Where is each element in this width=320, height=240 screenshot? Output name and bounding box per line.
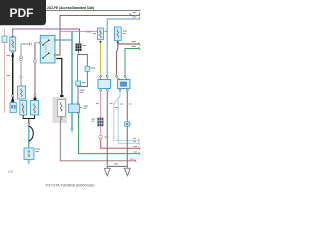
- connector pair on gray wire: [19, 56, 22, 58]
- connector at gray wire end: [29, 42, 31, 45]
- relay box: [39, 35, 56, 63]
- connector box on purple left leg: [76, 81, 81, 86]
- wire yellow-green: [100, 43, 102, 75]
- noise filter box: [69, 103, 83, 114]
- diamond marker on black wire: [11, 54, 14, 59]
- connector box on red wire top: [2, 36, 7, 43]
- pin on light blue wire: [106, 75, 108, 77]
- wire green right: [125, 49, 139, 75]
- gray band: [53, 97, 68, 123]
- wire purple to noise filter: [77, 87, 79, 104]
- connector box right: [116, 77, 130, 88]
- wire light blue top horizontal: [107, 17, 139, 76]
- wire pink horizontal: [60, 30, 98, 32]
- wire purple main horizontal: [13, 29, 80, 44]
- pin on black wire: [12, 95, 14, 97]
- pin on green wire: [124, 75, 126, 77]
- shield ground arrow: [27, 160, 31, 165]
- tick on brown wire: [130, 13, 132, 16]
- tick on brown wire right: [139, 42, 141, 45]
- fuse row box B: [10, 103, 16, 113]
- fuse row box C: [20, 101, 27, 116]
- pin below FL right 1: [100, 41, 102, 43]
- shield symbol: [29, 126, 34, 141]
- pins below connector boxes: [100, 89, 102, 91]
- fusible link white box: [57, 100, 65, 117]
- connector nub B: [11, 100, 14, 103]
- svg-text:TOYOTA TUNDRA (EM00S0U): TOYOTA TUNDRA (EM00S0U): [45, 184, 94, 188]
- wire brown right: [116, 43, 117, 75]
- wire black drop to shield: [28, 119, 30, 124]
- ground arrow left: [104, 168, 110, 176]
- wire teal vertical: [71, 31, 73, 128]
- wire black join below fuses: [23, 115, 34, 119]
- wire light blue second: [118, 96, 139, 143]
- header rule: [8, 10, 141, 12]
- wire maroon down to fuse D: [34, 43, 36, 101]
- wire gray right lower: [126, 126, 128, 168]
- wire maroon from relay to fuse: [35, 42, 39, 44]
- wire pink stub from connector: [100, 91, 102, 117]
- tick on red wire: [139, 147, 141, 150]
- tick on rose wire: [135, 159, 137, 162]
- junction hatched on pink: [97, 118, 103, 127]
- wire purple loop: [77, 51, 80, 81]
- svg-text:2UZ-FE (Access/Standard Cab): 2UZ-FE (Access/Standard Cab): [47, 6, 94, 10]
- fusible link box FL MAIN: [10, 36, 16, 51]
- sleeve connector: [99, 135, 103, 138]
- wire light blue pair: [114, 91, 139, 140]
- fuse box A left: [18, 86, 26, 99]
- pin on brown wire: [115, 75, 117, 77]
- wire red far left: [4, 29, 6, 114]
- pin on maroon wire: [34, 94, 36, 96]
- pin below FL right 2: [117, 41, 119, 43]
- svg-text:110: 110: [8, 170, 13, 174]
- tiny labels: [7, 12, 138, 164]
- teal continuation arrow: [70, 129, 74, 134]
- wire black relay down: [56, 59, 62, 96]
- wire red bottom: [101, 140, 140, 148]
- ground arrow right: [124, 168, 130, 176]
- wire gray left: [21, 44, 30, 86]
- fusible link box right 2: [114, 27, 121, 41]
- connector box on purple: [85, 66, 90, 71]
- PDF badge: [0, 0, 46, 25]
- wire purple loop top to right leg: [78, 55, 88, 67]
- svg-text:PDF: PDF: [10, 6, 34, 20]
- wire black thick left: [12, 53, 14, 103]
- wire pink below junction: [100, 126, 102, 135]
- connector on maroon wire: [33, 60, 36, 62]
- connector black: [60, 95, 63, 98]
- pin on yellow-green wire: [100, 75, 102, 77]
- connector nub D: [34, 98, 37, 101]
- node above shield: [28, 123, 30, 125]
- wire brown top horizontal: [56, 13, 139, 55]
- wire green from noise filter: [79, 114, 140, 154]
- node below FL: [12, 51, 14, 53]
- ticks on light blue wires: [138, 139, 139, 142]
- fuse row box D: [31, 101, 39, 116]
- shielded teal wire: [28, 125, 30, 148]
- connector box left: [98, 77, 111, 88]
- amplifier box bottom left: [24, 148, 34, 160]
- connector box small right: [125, 122, 130, 127]
- wire dark gray from connector: [106, 91, 108, 168]
- wire teal from relay pin: [56, 39, 72, 41]
- tick on green wire: [139, 152, 141, 155]
- fusible link box right 1: [98, 28, 104, 40]
- wire rose bottom long: [60, 119, 135, 161]
- junction block black grid: [76, 44, 82, 52]
- tick on green wire right: [139, 47, 141, 50]
- connector on gray wire: [20, 76, 22, 78]
- wire gray right with box: [126, 91, 128, 122]
